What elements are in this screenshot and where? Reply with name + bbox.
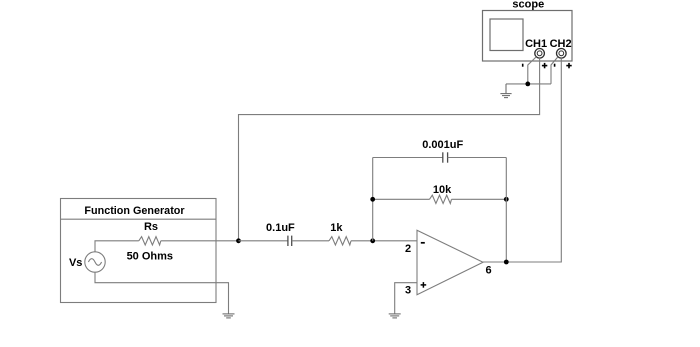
polarity tick CH2 minus <box>554 64 556 67</box>
wire Vs top to Rs <box>95 241 139 252</box>
capacitor 0.1uF <box>239 236 330 246</box>
wire feedback left vertical <box>372 158 374 241</box>
wire feedback right vertical <box>505 158 507 263</box>
svg-text:6: 6 <box>485 265 491 277</box>
junction output node <box>504 260 509 265</box>
ground scope <box>500 84 511 98</box>
ground function generator <box>223 314 235 318</box>
svg-text:3: 3 <box>405 285 411 297</box>
wire 10k branch right <box>452 198 507 200</box>
function generator title divider <box>61 218 217 220</box>
wire CH1 shield tail <box>528 57 536 84</box>
ground op-amp <box>389 314 401 318</box>
svg-text:50 Ohms: 50 Ohms <box>127 250 173 262</box>
terminal CH2 <box>557 49 567 59</box>
wire CH1 probe to input node <box>239 58 540 241</box>
wire pin 3 to ground <box>395 283 417 314</box>
scope box <box>483 11 573 62</box>
polarity tick CH1 minus <box>522 64 524 67</box>
op-amp minus <box>421 242 425 244</box>
junction feedback left <box>370 197 375 202</box>
resistor Rs <box>139 237 161 245</box>
wire Rs to input node <box>161 240 239 242</box>
wire 10k branch left <box>373 198 430 200</box>
svg-text:CH1: CH1 <box>525 38 547 50</box>
polarity plus CH2 <box>566 63 571 68</box>
resistor 1k <box>329 237 351 245</box>
source Vs <box>85 252 105 272</box>
svg-text:scope: scope <box>512 0 544 10</box>
svg-text:1k: 1k <box>330 222 343 234</box>
terminal CH1 <box>535 49 545 59</box>
svg-text:0.1uF: 0.1uF <box>266 222 295 234</box>
junction input node <box>236 238 241 243</box>
wire CH2 probe to output <box>483 58 561 262</box>
svg-text:2: 2 <box>405 243 411 255</box>
resistor 10k <box>430 195 452 203</box>
svg-text:Rs: Rs <box>144 221 158 233</box>
op-amp U1 <box>417 230 483 295</box>
junction scope ground <box>525 82 530 87</box>
junction feedback right <box>504 197 509 202</box>
wire 1k to op-amp pin 2 <box>351 240 417 242</box>
wire scope ground bus <box>506 83 551 85</box>
op-amp plus <box>421 282 427 288</box>
scope screen <box>490 19 523 51</box>
source Vs sine <box>88 259 101 266</box>
svg-text:Function Generator: Function Generator <box>84 205 185 217</box>
svg-text:10k: 10k <box>433 184 452 196</box>
wire CH2 shield tail <box>551 57 558 84</box>
polarity plus CH1 <box>542 63 547 68</box>
svg-text:Vs: Vs <box>69 257 82 269</box>
function generator box <box>61 199 217 303</box>
svg-text:0.001uF: 0.001uF <box>422 139 463 151</box>
junction inverting node <box>370 238 375 243</box>
wire Vs bottom to FG ground <box>95 272 229 314</box>
capacitor 0.001uF <box>373 152 507 162</box>
